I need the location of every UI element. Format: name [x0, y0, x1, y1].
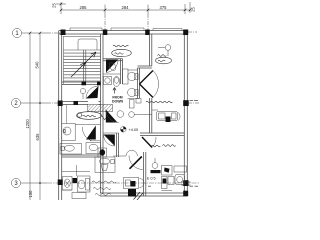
stair bottom wall: [62, 82, 101, 85]
svg-text:635: 635: [35, 133, 40, 141]
bottom-right office desk lower: [162, 175, 185, 189]
handwriting annotation bottom: [92, 181, 116, 195]
level marker +4.05: [121, 127, 127, 133]
mens wc door arc: [106, 60, 118, 73]
grid centerline 2 dash-dot: [47, 102, 60, 104]
column right wall grid3: [183, 180, 188, 186]
residential unit label: [146, 101, 172, 103]
interior wall grid2: [62, 102, 101, 105]
hall door leaf: [86, 86, 99, 99]
room left wall y133: [103, 132, 119, 134]
svg-text:375: 375: [160, 5, 168, 10]
door head office: [142, 137, 156, 148]
stair treads: [64, 50, 101, 81]
desk black monitor: [164, 168, 169, 173]
grid bubble 3: [11, 178, 20, 187]
kitchen sink counter: [62, 124, 75, 141]
rect below toilets 2: [136, 99, 141, 104]
double door arc up: [153, 71, 159, 85]
stair direction arrow: [71, 52, 96, 77]
column left wall grid2: [58, 101, 63, 107]
column right wall grid2: [183, 100, 189, 106]
column top x147: [145, 30, 150, 36]
exterior top wall: [59, 31, 188, 35]
corridor wall vertical x101: [101, 34, 104, 193]
wall stub y110 right: [152, 109, 158, 111]
mens wc door leaf: [106, 60, 118, 73]
wash unit left: [60, 144, 82, 155]
mens wc line y74: [103, 73, 121, 75]
ladies wc wall x138: [138, 68, 140, 98]
tea room label (Persian squiggle): [77, 112, 107, 120]
head office desk: [157, 112, 181, 121]
prayer rooms divider wall x150: [150, 34, 152, 66]
right wall tiny text grid2: [190, 99, 199, 102]
kitchen closet partition: [66, 105, 68, 124]
exterior right wall: [184, 31, 187, 197]
black band fixture: [151, 170, 161, 173]
column top x105: [103, 30, 108, 36]
stair top edge line: [64, 36, 101, 38]
hatched wall segment below hall: [88, 105, 113, 112]
ladies wc wall y67: [138, 66, 152, 68]
hall fixture circle: [80, 88, 85, 99]
kitchen door arc: [82, 127, 91, 141]
svg-text:2: 2: [14, 101, 18, 107]
from down arrow: [113, 88, 116, 94]
corridor door arc: [106, 110, 119, 123]
right wall grid3 hatch ticks: [181, 182, 191, 185]
bottom wall window hatch: [128, 189, 143, 200]
desk lower line: [162, 190, 173, 192]
mens basin: [104, 77, 112, 85]
top wall lintel lines: [70, 28, 182, 31]
grid bubble 1: [12, 28, 21, 37]
column stair wall right: [97, 82, 101, 86]
basin dark left room: [98, 148, 107, 157]
double door leaf down: [140, 84, 154, 98]
bottom-right office desk upper: [162, 166, 187, 176]
kitchen door leaf: [86, 126, 96, 140]
wall y171 toilet room: [62, 171, 90, 173]
desk lower black item: [163, 179, 167, 184]
column top-right corner: [183, 30, 188, 36]
corridor door triangle: [106, 110, 118, 123]
svg-text:1: 1: [15, 31, 19, 37]
dimension ticks left: [29, 32, 42, 184]
mens wc wall y59: [103, 59, 123, 61]
double door leaf up: [140, 71, 154, 85]
top dimension line: [56, 2, 190, 14]
column wall2 mid: [74, 101, 79, 105]
svg-text:150: 150: [28, 190, 33, 198]
column left wall grid3: [58, 180, 63, 186]
exterior bottom wall: [100, 193, 187, 196]
mens toilet oval: [113, 77, 120, 87]
svg-text:25: 25: [52, 3, 57, 8]
partition x76: [76, 165, 78, 176]
svg-text:E 0 5: E 0 5: [147, 177, 156, 181]
toilet with tank bottom-left: [78, 176, 91, 192]
tag bubble with leader: [129, 112, 152, 118]
head office black chair: [166, 117, 171, 123]
grid centerline 2 right: [188, 102, 199, 104]
wc pan under door: [108, 61, 117, 71]
ladies prayer room fan symbol: [158, 45, 171, 56]
centerline top x105: [104, 14, 106, 30]
wash unit right: [86, 143, 101, 154]
svg-text:+4.05: +4.05: [129, 128, 139, 132]
head office left wall: [150, 98, 152, 133]
prayer room label mens (squiggle + ellipse): [112, 45, 132, 57]
column bottom-right corner: [183, 191, 188, 197]
toilet bottom-middle: [95, 157, 115, 172]
dimension ticks top: [60, 3, 192, 12]
hall door arc: [86, 86, 99, 99]
wall y70 stub: [128, 69, 138, 71]
kitchen wall y124: [75, 124, 100, 126]
head office label: [152, 145, 176, 147]
shower tray rect: [123, 69, 129, 84]
rect below toilets: [130, 100, 135, 109]
stair landing outline: [78, 39, 97, 50]
wall y98 stub: [128, 98, 140, 100]
svg-text:540: 540: [35, 61, 40, 69]
exterior left wall: [59, 31, 62, 201]
fixture rect at bottom edge: [62, 190, 86, 199]
svg-text:DOWN: DOWN: [112, 100, 124, 104]
black fixture square bottom-left: [73, 178, 78, 183]
double door arc down: [153, 84, 159, 98]
column grid1-left: [61, 30, 66, 36]
ladies prayer label: [156, 55, 172, 64]
kitchen wall y141: [90, 140, 101, 142]
wall y155: [62, 155, 101, 157]
desk bottom-middle chair black: [131, 181, 136, 187]
grid centerline 3 dash-dot: [47, 182, 199, 184]
corridor door knob circle: [117, 111, 124, 118]
svg-text:3: 3: [14, 181, 18, 187]
desk bottom-middle: [124, 178, 145, 189]
sidebar circle fixture: [152, 158, 158, 168]
grid bubble 2: [11, 98, 20, 107]
staircase left edge: [63, 36, 65, 84]
tiny text right of wall g3: [190, 185, 199, 188]
svg-text:285: 285: [80, 5, 88, 10]
svg-text:1200: 1200: [25, 119, 30, 129]
head office bottom wall: [140, 133, 184, 136]
wall x144 corridor right: [144, 152, 146, 196]
squat wc pan: [63, 177, 73, 191]
door bottom-middle room: [113, 150, 143, 169]
toilet circle lower: [128, 88, 139, 96]
toilet circle upper: [128, 72, 139, 80]
centerline top x148: [147, 14, 149, 30]
stair stringer: [84, 50, 86, 84]
grid centerline 1 right: [188, 31, 197, 33]
svg-text:284: 284: [122, 5, 130, 10]
column stair wall mid: [82, 82, 87, 86]
wall x117 vertical: [117, 133, 119, 157]
mens wc wall x121: [121, 59, 123, 84]
tiny text left of wall g3: [148, 185, 151, 188]
svg-text:25: 25: [191, 7, 196, 12]
grid centerline 1 dash-dot: [47, 32, 60, 34]
door left room: [103, 135, 114, 147]
left dimension lines: [21, 33, 47, 200]
